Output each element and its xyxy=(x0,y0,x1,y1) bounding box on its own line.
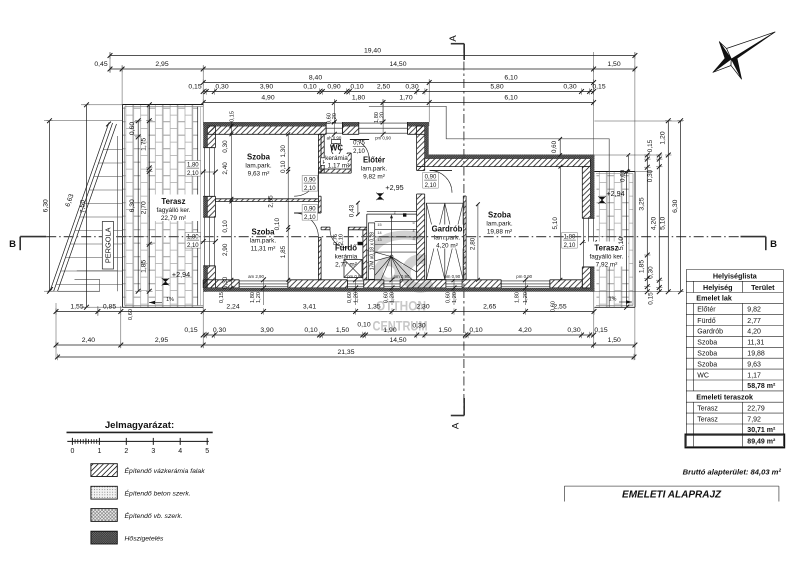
extension lines bottom xyxy=(55,303,57,358)
svg-text:0,90: 0,90 xyxy=(304,206,316,212)
svg-text:9,63: 9,63 xyxy=(747,361,761,368)
window size box left wall window 1 xyxy=(185,161,201,177)
svg-text:Hőszigetelés: Hőszigetelés xyxy=(125,535,165,542)
hall window in top wall xyxy=(359,122,408,134)
svg-text:5,80: 5,80 xyxy=(490,84,503,91)
section marker A bottom xyxy=(451,415,464,417)
title box EMELETI ALAPRAJZ xyxy=(564,485,779,487)
roof edge outline above xyxy=(369,106,609,307)
extension lines right xyxy=(594,120,683,122)
svg-text:4,20: 4,20 xyxy=(651,217,658,230)
top exterior wall with insulation xyxy=(207,126,326,134)
svg-text:9,82: 9,82 xyxy=(747,307,761,314)
right chain 4,20 xyxy=(658,155,660,292)
level mark +2,94 right terrace xyxy=(599,197,605,203)
svg-text:1,35: 1,35 xyxy=(367,304,380,311)
svg-text:2,95: 2,95 xyxy=(155,337,168,344)
legend swatch walls xyxy=(91,464,117,477)
svg-text:3,90: 3,90 xyxy=(260,84,273,91)
svg-text:0,30: 0,30 xyxy=(412,323,425,330)
left dimension 7,50 xyxy=(86,105,88,307)
north arrow xyxy=(713,32,775,79)
svg-text:0,30: 0,30 xyxy=(215,84,228,91)
svg-text:Bruttó alapterület: 84,03 m²: Bruttó alapterület: 84,03 m² xyxy=(683,467,782,476)
svg-text:Előtér: Előtér xyxy=(697,307,716,314)
svg-text:0,60: 0,60 xyxy=(383,292,389,303)
svg-text:1,85: 1,85 xyxy=(280,245,287,258)
svg-text:3,90: 3,90 xyxy=(260,327,273,334)
svg-text:8,40: 8,40 xyxy=(309,75,322,82)
section marker A top xyxy=(451,43,464,45)
svg-text:0,30: 0,30 xyxy=(647,169,654,182)
dimension row 8,40 6,10 xyxy=(203,82,593,84)
legend swatch reinforced concrete xyxy=(91,509,117,522)
WC toilet xyxy=(332,140,341,144)
right chain detail xyxy=(646,155,648,292)
svg-text:0,30: 0,30 xyxy=(405,84,418,91)
svg-text:19,40: 19,40 xyxy=(364,48,381,55)
svg-text:WC: WC xyxy=(697,372,709,379)
interior chain bedroom 19,88 height 5,10 xyxy=(559,167,561,280)
svg-text:2,10: 2,10 xyxy=(339,234,345,245)
WC bottom wall xyxy=(318,169,351,173)
svg-text:4,90: 4,90 xyxy=(261,95,274,102)
svg-text:2,05: 2,05 xyxy=(267,195,274,208)
svg-text:1,80: 1,80 xyxy=(564,234,576,240)
svg-text:kerámia: kerámia xyxy=(325,155,348,162)
svg-text:1,80: 1,80 xyxy=(187,234,199,240)
interior chain left rooms xyxy=(230,122,232,288)
room label Gardrob xyxy=(430,225,463,249)
stair flight treads xyxy=(367,210,417,212)
svg-text:22,79: 22,79 xyxy=(747,405,765,412)
right chain 1,20 5,10 xyxy=(667,121,669,292)
svg-text:lam.park.: lam.park. xyxy=(245,163,272,170)
svg-text:lam.park.: lam.park. xyxy=(361,166,388,173)
svg-text:pm 0,90: pm 0,90 xyxy=(394,274,410,279)
svg-text:pm 0,90: pm 0,90 xyxy=(347,274,363,279)
svg-text:+2,95: +2,95 xyxy=(385,183,403,192)
svg-text:+2,94: +2,94 xyxy=(606,189,624,198)
svg-text:Építendő vázkerámia falak: Építendő vázkerámia falak xyxy=(125,466,206,475)
section line B-B xyxy=(46,236,740,238)
svg-text:2,10: 2,10 xyxy=(187,243,199,249)
svg-text:2,80: 2,80 xyxy=(469,237,476,250)
svg-text:0,30: 0,30 xyxy=(222,140,229,153)
WC window in top wall xyxy=(326,122,342,134)
svg-text:2,24: 2,24 xyxy=(226,304,239,311)
svg-text:2,70: 2,70 xyxy=(141,201,148,214)
stair newel post xyxy=(403,213,406,216)
svg-text:3,41: 3,41 xyxy=(303,304,316,311)
svg-text:0,15: 0,15 xyxy=(647,292,654,305)
svg-text:1,50: 1,50 xyxy=(608,337,621,344)
svg-text:0,15: 0,15 xyxy=(184,327,197,334)
svg-text:14,50: 14,50 xyxy=(389,337,406,344)
interior chain hall xyxy=(287,134,289,279)
svg-text:5,10: 5,10 xyxy=(552,217,559,230)
room label Terasz right xyxy=(586,242,628,267)
svg-text:21,35: 21,35 xyxy=(337,349,354,356)
svg-text:lam.park.: lam.park. xyxy=(486,221,513,228)
left dimension 6,30 xyxy=(49,121,51,292)
terrace offset dimension 0,60 right xyxy=(627,155,629,172)
pergola diagonal dimension 6,63 xyxy=(50,123,109,292)
svg-text:1,20: 1,20 xyxy=(660,131,667,144)
svg-text:2,10: 2,10 xyxy=(304,215,316,221)
svg-text:1,85: 1,85 xyxy=(639,260,646,273)
pergola edge beam xyxy=(117,136,119,291)
svg-text:Szoba: Szoba xyxy=(697,351,717,358)
svg-text:4,20: 4,20 xyxy=(518,327,531,334)
svg-text:1,80: 1,80 xyxy=(515,292,521,303)
svg-text:Emeleti teraszok: Emeleti teraszok xyxy=(696,393,753,402)
bottom wall window bathroom xyxy=(348,280,364,288)
svg-text:30,71 m²: 30,71 m² xyxy=(747,427,776,434)
right terrace paving xyxy=(597,172,634,308)
svg-text:0,45: 0,45 xyxy=(94,61,107,68)
bathroom shower tray xyxy=(344,260,362,278)
svg-text:2: 2 xyxy=(394,211,396,215)
svg-text:0,10: 0,10 xyxy=(469,327,482,334)
svg-text:1,20: 1,20 xyxy=(523,292,529,303)
svg-text:1,50: 1,50 xyxy=(336,327,349,334)
svg-text:Szoba: Szoba xyxy=(247,153,271,162)
central partition wall xyxy=(318,134,321,172)
svg-text:2,10: 2,10 xyxy=(564,243,576,249)
svg-text:am 2,90: am 2,90 xyxy=(248,274,264,279)
svg-text:1,17: 1,17 xyxy=(747,372,761,379)
svg-text:1%: 1% xyxy=(166,297,174,303)
svg-text:0,10: 0,10 xyxy=(274,218,281,231)
svg-text:5,10: 5,10 xyxy=(618,237,625,250)
svg-text:0,60: 0,60 xyxy=(128,309,134,320)
svg-text:2,10: 2,10 xyxy=(425,183,437,189)
svg-text:Terasz: Terasz xyxy=(697,416,718,423)
pergola slats xyxy=(104,149,123,151)
svg-text:0,60: 0,60 xyxy=(129,122,136,135)
svg-text:0,10: 0,10 xyxy=(350,84,363,91)
bottom wall window bedroom 19,88 xyxy=(501,280,550,288)
svg-text:Terasz: Terasz xyxy=(594,244,618,253)
svg-text:19,88 m²: 19,88 m² xyxy=(487,229,512,236)
left wall window bedroom 9,63 xyxy=(203,148,215,197)
door WC to hall xyxy=(350,139,369,141)
svg-text:Szoba: Szoba xyxy=(697,361,717,368)
bathroom north wall xyxy=(321,227,330,230)
dimension row detail top xyxy=(203,91,593,93)
svg-text:5: 5 xyxy=(205,448,209,455)
left wall window bedroom 11,31 xyxy=(203,217,215,266)
svg-text:1,20: 1,20 xyxy=(390,292,396,303)
svg-text:1,30: 1,30 xyxy=(280,145,287,158)
svg-text:14,50: 14,50 xyxy=(389,61,406,68)
svg-text:0,60: 0,60 xyxy=(347,292,353,303)
svg-text:0,30: 0,30 xyxy=(647,266,654,279)
door size box bedroom 9,63 door xyxy=(302,176,318,192)
door wardrobe xyxy=(430,169,452,171)
svg-text:1,80: 1,80 xyxy=(187,162,199,168)
svg-text:7,92: 7,92 xyxy=(747,416,761,423)
stair winder steps xyxy=(367,250,391,257)
svg-text:Terasz: Terasz xyxy=(161,197,185,206)
step wall between sections with insulation xyxy=(417,126,425,167)
dimension row 4,90 1,80 1,70 6,10 xyxy=(203,102,593,104)
watermark Otthon Centrum logo xyxy=(371,235,429,288)
svg-text:1,85: 1,85 xyxy=(141,259,148,272)
door size box bedroom 11,31 door xyxy=(302,205,318,221)
svg-text:3: 3 xyxy=(151,448,155,455)
section marker B left xyxy=(20,236,46,238)
svg-text:A: A xyxy=(451,422,462,429)
svg-text:2,77 m²: 2,77 m² xyxy=(335,262,357,269)
upper wall of right section with insulation xyxy=(425,159,591,167)
door size box terrace door xyxy=(562,233,578,249)
level mark +2,94 left terrace xyxy=(162,279,168,285)
svg-text:0,30: 0,30 xyxy=(213,327,226,334)
svg-text:2,50: 2,50 xyxy=(377,84,390,91)
svg-text:A: A xyxy=(448,35,459,42)
svg-text:0,10: 0,10 xyxy=(222,220,229,233)
level mark +2,95 hall xyxy=(377,193,383,199)
bottom wall window stairwell xyxy=(384,280,400,288)
svg-text:0,60: 0,60 xyxy=(446,292,452,303)
svg-text:2,40: 2,40 xyxy=(82,337,95,344)
svg-text:B: B xyxy=(770,239,777,250)
bottom exterior wall with insulation xyxy=(203,280,239,288)
svg-text:1%: 1% xyxy=(609,296,617,302)
svg-text:kerámia: kerámia xyxy=(335,254,358,261)
svg-text:2,30: 2,30 xyxy=(416,304,429,311)
svg-text:13: 13 xyxy=(377,238,381,242)
svg-text:17M x0,18 x 0,28: 17M x0,18 x 0,28 xyxy=(369,232,375,271)
svg-text:1,80: 1,80 xyxy=(352,95,365,102)
dimension row 19,40 xyxy=(110,55,635,57)
stair walking line xyxy=(391,217,393,257)
right chain 6,30 xyxy=(680,121,682,292)
left terrace paving xyxy=(123,105,198,308)
svg-text:0,15: 0,15 xyxy=(647,139,654,152)
svg-text:11,31 m²: 11,31 m² xyxy=(251,246,276,253)
room list table xyxy=(686,270,783,447)
section marker B right xyxy=(741,236,766,238)
bathroom duct xyxy=(358,242,363,245)
dimension row 0,45 2,95 14,50 1,50 xyxy=(110,68,635,70)
svg-text:Terület: Terület xyxy=(751,283,775,292)
svg-text:Gardrób: Gardrób xyxy=(432,225,463,234)
WC vent box H xyxy=(321,158,329,166)
svg-text:lam.park.: lam.park. xyxy=(434,235,461,242)
svg-text:Szoba: Szoba xyxy=(697,340,717,347)
svg-text:pm 0,90: pm 0,90 xyxy=(375,136,391,141)
svg-text:Szoba: Szoba xyxy=(252,228,276,237)
svg-text:2,10: 2,10 xyxy=(187,171,199,177)
right exterior wall with insulation xyxy=(582,167,590,219)
svg-text:1,20: 1,20 xyxy=(452,292,458,303)
svg-text:PERGOLA: PERGOLA xyxy=(103,227,112,263)
svg-text:1,75: 1,75 xyxy=(141,137,148,150)
svg-text:1,90: 1,90 xyxy=(383,327,396,334)
bottom wall window bedroom 11,31 xyxy=(239,280,288,288)
svg-text:1,70: 1,70 xyxy=(399,95,412,102)
svg-text:1,20: 1,20 xyxy=(353,292,359,303)
svg-text:0,10: 0,10 xyxy=(280,160,287,173)
svg-text:2,40: 2,40 xyxy=(222,162,229,175)
WC left wall xyxy=(321,134,324,173)
svg-text:6,10: 6,10 xyxy=(504,75,517,82)
svg-text:Építendő vb. szerk.: Építendő vb. szerk. xyxy=(125,511,183,520)
interior wall between stairs and wardrobe xyxy=(417,167,425,171)
svg-text:1,50: 1,50 xyxy=(438,327,451,334)
svg-text:0,15: 0,15 xyxy=(592,84,605,91)
pergola inner edge xyxy=(58,124,117,291)
svg-text:0,10: 0,10 xyxy=(357,322,370,329)
svg-text:4: 4 xyxy=(178,448,182,455)
svg-text:0,15: 0,15 xyxy=(230,111,236,122)
svg-text:Helyiséglista: Helyiséglista xyxy=(713,271,758,280)
window size box left wall window 2 xyxy=(185,233,201,249)
svg-text:11,31: 11,31 xyxy=(747,340,764,347)
svg-text:6,30: 6,30 xyxy=(42,199,49,212)
svg-text:EMELETI ALAPRAJZ: EMELETI ALAPRAJZ xyxy=(622,489,722,500)
svg-text:2,95: 2,95 xyxy=(155,61,168,68)
svg-text:22,79 m²: 22,79 m² xyxy=(161,215,186,222)
svg-text:4,20: 4,20 xyxy=(747,329,761,336)
svg-text:3,25: 3,25 xyxy=(639,197,646,210)
svg-text:0,90: 0,90 xyxy=(304,177,316,183)
terrace chain 0,60 6,30 xyxy=(137,121,139,292)
svg-text:58,78 m²: 58,78 m² xyxy=(747,383,776,390)
door size box wardrobe door xyxy=(423,173,439,189)
svg-text:Előtér: Előtér xyxy=(363,156,385,165)
svg-text:15: 15 xyxy=(377,223,381,227)
left exterior wall with insulation xyxy=(207,126,215,148)
svg-text:7,92 m²: 7,92 m² xyxy=(596,262,618,269)
dimension row bottom A xyxy=(56,311,594,313)
door bedroom 11,31 xyxy=(294,212,318,214)
svg-text:pm 0,90: pm 0,90 xyxy=(444,274,460,279)
roof offset dimension 0,60 xyxy=(559,139,561,155)
dimension row bottom C xyxy=(56,344,635,346)
svg-text:Terasz: Terasz xyxy=(697,405,718,412)
svg-text:1: 1 xyxy=(97,448,101,455)
svg-text:WC: WC xyxy=(330,144,343,153)
svg-text:6,30: 6,30 xyxy=(672,199,679,212)
svg-text:1,20: 1,20 xyxy=(256,292,262,303)
svg-text:1,50: 1,50 xyxy=(607,61,620,68)
svg-text:2,90: 2,90 xyxy=(222,243,229,256)
wardrobe east wall xyxy=(463,196,466,280)
svg-text:Szoba: Szoba xyxy=(488,211,512,220)
svg-text:0,90: 0,90 xyxy=(425,174,437,180)
svg-text:0,75: 0,75 xyxy=(353,141,365,147)
svg-text:0,15: 0,15 xyxy=(188,84,201,91)
svg-text:0,30: 0,30 xyxy=(567,327,580,334)
door bedroom 9,63 xyxy=(317,172,319,196)
svg-text:6,30: 6,30 xyxy=(129,199,136,212)
PERGOLA label xyxy=(102,222,113,270)
bottom wall window wardrobe xyxy=(446,280,462,288)
svg-text:2: 2 xyxy=(124,448,128,455)
svg-text:9,82 m²: 9,82 m² xyxy=(363,174,385,181)
svg-text:Építendő beton szerk.: Építendő beton szerk. xyxy=(125,489,191,498)
stair label box 17M xyxy=(369,223,375,279)
dimension row bottom B xyxy=(203,334,593,336)
svg-text:89,49 m²: 89,49 m² xyxy=(747,439,776,446)
svg-text:+2,94: +2,94 xyxy=(172,270,190,279)
room label Terasz left xyxy=(149,195,199,222)
svg-text:Helyiség: Helyiség xyxy=(703,283,733,292)
svg-text:0,43: 0,43 xyxy=(348,204,355,217)
legend swatch concrete xyxy=(91,486,117,499)
svg-text:2,55: 2,55 xyxy=(553,304,566,311)
svg-text:0,10: 0,10 xyxy=(304,327,317,334)
svg-text:0,90: 0,90 xyxy=(327,84,340,91)
svg-text:1,17 m²: 1,17 m² xyxy=(328,163,350,170)
svg-text:lam.park.: lam.park. xyxy=(250,238,277,245)
svg-text:6,10: 6,10 xyxy=(504,95,517,102)
extension lines top xyxy=(109,52,111,73)
svg-text:1,20: 1,20 xyxy=(332,113,338,124)
svg-text:fagyálló ker.: fagyálló ker. xyxy=(156,207,190,214)
svg-text:4: 4 xyxy=(412,229,414,233)
svg-text:2,10: 2,10 xyxy=(304,186,316,192)
svg-text:0,60: 0,60 xyxy=(551,140,558,153)
svg-text:Jelmagyarázat:: Jelmagyarázat: xyxy=(105,420,174,431)
svg-text:0,15: 0,15 xyxy=(594,327,607,334)
svg-text:2,65: 2,65 xyxy=(483,304,496,311)
svg-text:Fürdő: Fürdő xyxy=(697,318,715,325)
legend scale bar xyxy=(67,440,209,442)
svg-text:7,50: 7,50 xyxy=(79,200,86,213)
svg-text:4,20 m²: 4,20 m² xyxy=(436,243,458,250)
terrace chain 1,75 2,70 1,85 xyxy=(148,105,150,291)
svg-text:ah 0,90: ah 0,90 xyxy=(327,136,342,141)
section line A-A xyxy=(463,44,465,416)
svg-text:0,10: 0,10 xyxy=(303,84,316,91)
svg-text:14: 14 xyxy=(377,231,381,235)
partition between bedrooms xyxy=(215,199,318,202)
interior chain wardrobe 2,80 xyxy=(477,204,479,280)
svg-text:3: 3 xyxy=(412,237,414,241)
svg-text:2,77: 2,77 xyxy=(747,318,761,325)
dimension row bottom D xyxy=(58,356,635,358)
svg-text:Emelet lak: Emelet lak xyxy=(696,294,732,303)
stair guard dimension 0,43 xyxy=(357,203,359,215)
wardrobe cabinet xyxy=(426,203,463,279)
pergola post footing xyxy=(77,270,118,272)
bathroom east wall xyxy=(363,230,367,280)
svg-text:2,10: 2,10 xyxy=(353,149,365,155)
svg-text:B: B xyxy=(9,239,16,250)
svg-text:fagyálló ker.: fagyálló ker. xyxy=(589,254,623,261)
svg-text:0: 0 xyxy=(70,448,74,455)
terrace door in right wall xyxy=(582,218,594,267)
door bathroom xyxy=(347,230,349,248)
svg-text:1,20: 1,20 xyxy=(379,112,385,123)
svg-text:0,30: 0,30 xyxy=(222,276,229,289)
svg-text:0,15: 0,15 xyxy=(219,292,225,303)
svg-text:19,88: 19,88 xyxy=(747,351,765,358)
svg-text:5,10: 5,10 xyxy=(660,216,667,229)
svg-text:9,63 m²: 9,63 m² xyxy=(248,171,270,178)
right terrace dimension 5,10 xyxy=(626,172,628,308)
svg-text:pm 0,90: pm 0,90 xyxy=(516,274,532,279)
extension lines left xyxy=(44,120,123,122)
svg-text:5: 5 xyxy=(412,221,414,225)
legend swatch insulation xyxy=(91,531,117,544)
svg-text:0,30: 0,30 xyxy=(563,84,576,91)
